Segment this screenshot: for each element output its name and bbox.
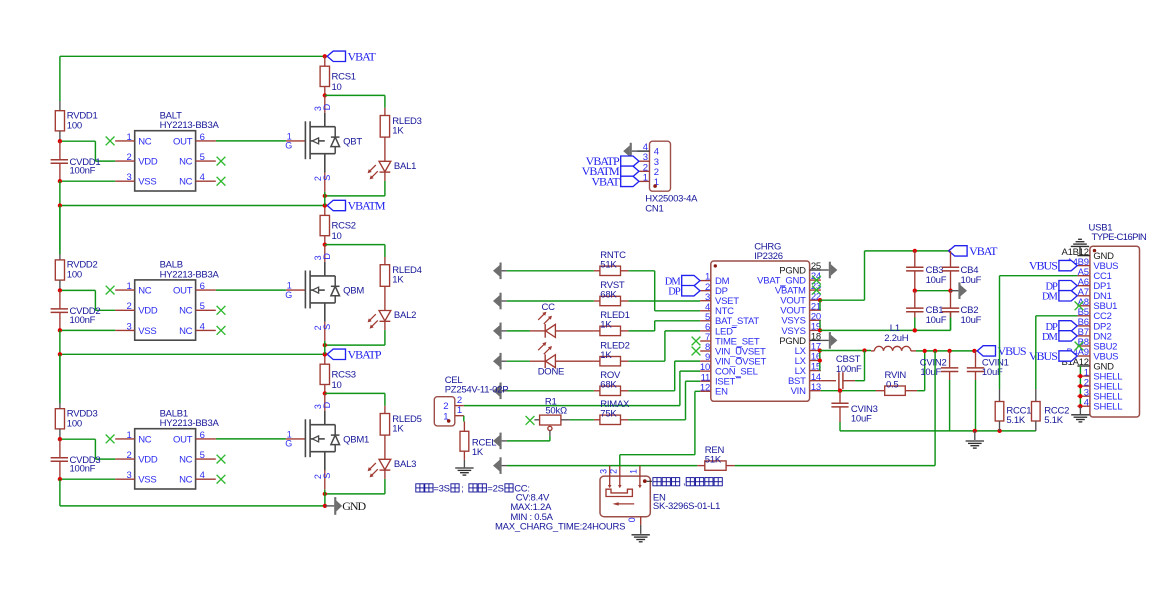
svg-text:0.5: 0.5: [886, 380, 898, 391]
svg-text:VBAT: VBAT: [348, 50, 377, 64]
svg-text:CB1: CB1: [926, 305, 944, 316]
svg-text:1K: 1K: [392, 126, 404, 137]
svg-text:HY2213-BB3A: HY2213-BB3A: [160, 269, 220, 280]
svg-text:6: 6: [200, 281, 205, 292]
svg-text:3: 3: [126, 470, 131, 481]
svg-text:51K: 51K: [705, 454, 722, 465]
svg-text:EN: EN: [715, 387, 728, 398]
svg-text:QBM: QBM: [343, 286, 364, 297]
svg-text:100nF: 100nF: [70, 315, 96, 326]
svg-text:D: D: [322, 103, 332, 110]
svg-text:1: 1: [126, 281, 131, 292]
svg-text:SHELL: SHELL: [1093, 402, 1122, 413]
svg-text:CB2: CB2: [961, 305, 979, 316]
svg-text:QBT: QBT: [343, 136, 362, 147]
svg-text:100: 100: [67, 418, 82, 429]
svg-text:6: 6: [200, 132, 205, 143]
svg-text:5.1K: 5.1K: [1044, 415, 1063, 426]
svg-text:BAL1: BAL1: [394, 161, 416, 172]
svg-text:SK-3296S-01-L1: SK-3296S-01-L1: [653, 501, 720, 512]
svg-text:1K: 1K: [472, 447, 484, 458]
svg-text:S: S: [322, 473, 332, 479]
svg-text:CB4: CB4: [961, 265, 979, 276]
svg-text:51K: 51K: [600, 259, 617, 270]
svg-text:DP: DP: [668, 287, 681, 298]
svg-text:50kΩ: 50kΩ: [545, 406, 567, 417]
svg-text:OUT: OUT: [173, 136, 193, 147]
svg-text:VBAT: VBAT: [969, 244, 998, 258]
svg-text:D: D: [322, 401, 332, 408]
svg-text:NC: NC: [138, 286, 152, 297]
svg-text:VDD: VDD: [138, 157, 158, 168]
svg-text:1K: 1K: [392, 275, 404, 286]
svg-text:MAX_CHARG_TIME:24HOURS: MAX_CHARG_TIME:24HOURS: [495, 522, 625, 533]
svg-text:D: D: [322, 253, 332, 260]
svg-text:100: 100: [67, 270, 82, 281]
svg-text:1: 1: [629, 469, 639, 474]
svg-text:CN1: CN1: [645, 204, 663, 215]
svg-text:68K: 68K: [600, 379, 617, 390]
svg-text:100: 100: [67, 120, 82, 131]
svg-text:DONE: DONE: [538, 366, 564, 377]
svg-text:4: 4: [200, 470, 205, 481]
svg-text:13: 13: [811, 382, 821, 393]
svg-text:S: S: [322, 324, 332, 330]
svg-text:OUT: OUT: [173, 286, 193, 297]
svg-text:68K: 68K: [600, 290, 617, 301]
svg-text:NC: NC: [138, 434, 152, 445]
svg-text:3: 3: [126, 321, 131, 332]
svg-text:IP2326: IP2326: [754, 251, 783, 262]
svg-text:5.1K: 5.1K: [1006, 415, 1025, 426]
svg-text:10: 10: [332, 380, 342, 391]
svg-text:=3S: =3S: [433, 483, 449, 494]
svg-text:VDD: VDD: [138, 455, 158, 466]
svg-text:10: 10: [332, 82, 342, 93]
svg-text:1K: 1K: [392, 424, 404, 435]
svg-text:4: 4: [200, 172, 205, 183]
svg-text:2: 2: [126, 152, 131, 163]
svg-text:0: 0: [627, 517, 637, 522]
svg-text:NC: NC: [179, 177, 193, 188]
svg-text:1: 1: [126, 430, 131, 441]
svg-text:BAL2: BAL2: [394, 310, 416, 321]
svg-text:1: 1: [457, 405, 462, 416]
svg-text:VBAT: VBAT: [591, 174, 620, 188]
svg-text:RCS1: RCS1: [332, 72, 356, 83]
svg-text:G: G: [285, 290, 292, 300]
svg-text:=2S: =2S: [487, 483, 503, 494]
svg-text:10: 10: [332, 231, 342, 242]
svg-text:VBUS: VBUS: [1029, 259, 1057, 273]
svg-text:QBM1: QBM1: [343, 434, 369, 445]
svg-text:VDD: VDD: [138, 306, 158, 317]
svg-text:,: ,: [683, 477, 685, 488]
svg-text:GND: GND: [342, 499, 366, 513]
svg-text:PZ254V-11-02P: PZ254V-11-02P: [445, 385, 509, 396]
svg-text:S: S: [322, 175, 332, 181]
svg-text:2: 2: [126, 301, 131, 312]
svg-text:10uF: 10uF: [926, 315, 947, 326]
svg-text:10uF: 10uF: [920, 367, 941, 378]
svg-text:OUT: OUT: [173, 434, 193, 445]
svg-text:NC: NC: [179, 475, 193, 486]
svg-text:5: 5: [200, 152, 205, 163]
svg-text:VBUS: VBUS: [998, 344, 1026, 358]
svg-text:1K: 1K: [600, 320, 612, 331]
svg-text:100nF: 100nF: [836, 364, 862, 375]
svg-text:VBUS: VBUS: [1029, 349, 1057, 363]
svg-text:NC: NC: [138, 136, 152, 147]
svg-text:RCS3: RCS3: [332, 370, 356, 381]
svg-text:2.2uH: 2.2uH: [884, 333, 908, 344]
svg-text:100nF: 100nF: [70, 166, 96, 177]
svg-text:VSS: VSS: [138, 177, 156, 188]
svg-text:G: G: [285, 141, 292, 151]
svg-text:12: 12: [700, 382, 710, 393]
svg-text:1K: 1K: [600, 350, 612, 361]
svg-text:;: ;: [461, 483, 463, 494]
svg-text:1: 1: [126, 132, 131, 143]
svg-text:5: 5: [200, 301, 205, 312]
svg-text:2: 2: [608, 469, 618, 474]
svg-text:BAL3: BAL3: [394, 459, 416, 470]
svg-text:VBATM: VBATM: [348, 199, 386, 213]
svg-text:VIN: VIN: [791, 386, 806, 397]
svg-text:G: G: [285, 439, 292, 449]
svg-text:10uF: 10uF: [851, 414, 872, 425]
svg-text:VSS: VSS: [138, 475, 156, 486]
svg-text:NC: NC: [179, 326, 193, 337]
svg-text:HY2213-BB3A: HY2213-BB3A: [160, 418, 220, 429]
svg-text:10uF: 10uF: [961, 315, 982, 326]
svg-text:4: 4: [200, 321, 205, 332]
svg-text:VSS: VSS: [138, 326, 156, 337]
svg-text:2: 2: [126, 450, 131, 461]
svg-text:3: 3: [126, 172, 131, 183]
svg-text:DM: DM: [1042, 292, 1059, 303]
svg-text:NC: NC: [179, 455, 193, 466]
svg-text:CC: CC: [542, 302, 556, 313]
svg-text:1: 1: [643, 172, 648, 183]
svg-text:4: 4: [1084, 397, 1089, 408]
svg-text:6: 6: [200, 430, 205, 441]
svg-text:100nF: 100nF: [70, 464, 96, 475]
svg-text:NC: NC: [179, 157, 193, 168]
svg-text:VBATP: VBATP: [348, 348, 382, 362]
svg-text:10uF: 10uF: [926, 275, 947, 286]
svg-text:5: 5: [200, 450, 205, 461]
svg-text:CB3: CB3: [926, 265, 944, 276]
svg-text:75K: 75K: [600, 408, 617, 419]
svg-text:TYPE-C16PIN: TYPE-C16PIN: [1092, 232, 1147, 243]
svg-text:3: 3: [598, 469, 608, 474]
svg-text:HY2213-BB3A: HY2213-BB3A: [160, 120, 220, 131]
svg-text:DM: DM: [1042, 332, 1059, 343]
svg-text:NC: NC: [179, 306, 193, 317]
svg-text:10uF: 10uF: [961, 275, 982, 286]
svg-text:RCS2: RCS2: [332, 221, 356, 232]
